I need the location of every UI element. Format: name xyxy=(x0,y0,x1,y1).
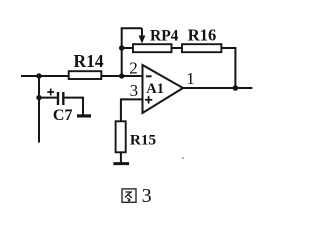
wire RP4 to R16 xyxy=(172,47,183,49)
svg-text:C7: C7 xyxy=(53,107,73,124)
node RP4 left junction xyxy=(119,45,124,50)
ground xyxy=(113,162,129,165)
op-amp A1 xyxy=(143,65,184,113)
minus sign inverting input xyxy=(146,75,152,77)
svg-text:3: 3 xyxy=(142,185,152,207)
svg-text:3: 3 xyxy=(130,81,139,100)
wire R15 to ground xyxy=(120,152,122,163)
wire output xyxy=(183,87,252,89)
caption character tu (figure) xyxy=(122,189,136,202)
wire feedback vertical riser xyxy=(121,28,123,76)
wire R14 to op-amp pin 2 xyxy=(101,75,142,77)
plus sign non-inverting input xyxy=(145,96,152,103)
resistor R15 xyxy=(116,121,126,152)
wire R16 to output drop xyxy=(221,48,235,88)
svg-text:R16: R16 xyxy=(188,25,216,44)
wire C7 to terminal bar xyxy=(65,98,84,115)
wire junction to C7 xyxy=(39,97,57,99)
node input junction xyxy=(36,73,41,78)
polarity plus of C7 xyxy=(47,89,54,96)
svg-text:2: 2 xyxy=(129,58,138,77)
node C7 tap junction xyxy=(36,95,41,100)
terminal bar at C7 xyxy=(77,114,91,117)
capacitor C7 plate right xyxy=(62,92,64,105)
capacitor C7 plate left (+) xyxy=(57,92,59,105)
wire left vertical drop xyxy=(38,76,40,143)
svg-text:A1: A1 xyxy=(146,81,164,97)
wire input from left to R14 xyxy=(21,75,69,77)
potentiometer RP4 xyxy=(133,44,172,52)
wire junction to RP4 xyxy=(122,47,133,49)
wiper arrow of RP4 xyxy=(139,28,146,43)
resistor R14 xyxy=(69,71,102,79)
resistor R16 xyxy=(182,44,221,52)
svg-text:RP4: RP4 xyxy=(150,27,179,44)
node pin2 feedback junction xyxy=(119,73,124,78)
wire pin3 input corner xyxy=(121,99,143,121)
node output junction xyxy=(233,85,239,91)
svg-text:R15: R15 xyxy=(130,132,157,149)
speck artifact xyxy=(182,157,184,159)
svg-text:R14: R14 xyxy=(74,51,104,71)
svg-text:1: 1 xyxy=(186,69,195,88)
wire top loop horizontal xyxy=(121,27,142,29)
